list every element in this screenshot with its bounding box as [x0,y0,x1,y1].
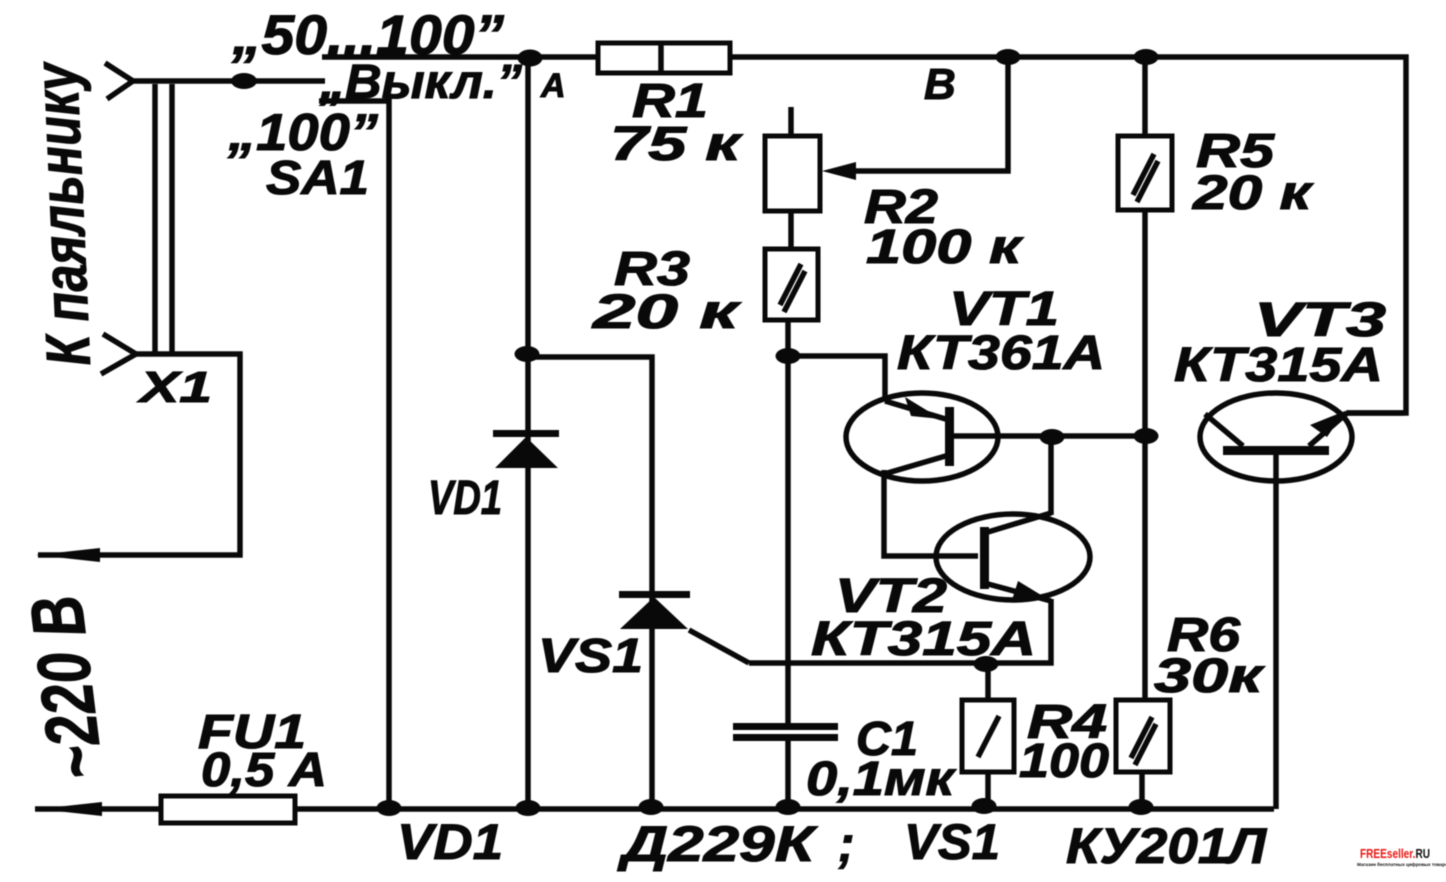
diode VD1 [493,430,559,437]
wire node B down and left to R2 wiper [840,57,1008,171]
resistor R4 [985,664,991,700]
wire VT1 base to R5/R6 line [954,433,1146,439]
X1 cable double line [152,84,158,352]
svg-text:FREEseller.RU: FREEseller.RU [1360,846,1430,861]
svg-text:VS1: VS1 [538,630,643,683]
resistor R1 [598,43,730,73]
junction dot R4 top [974,656,999,672]
svg-text:К паяльнику: К паяльнику [22,59,104,368]
wire R3 down to C1 and bottom [785,320,791,723]
svg-text:20 к: 20 к [591,286,742,339]
wire VT2 emitter down and left to VS1 gate [749,599,1051,663]
svg-text:КТ315А: КТ315А [811,613,1036,666]
svg-text:КТ315А: КТ315А [1174,339,1383,392]
wire VT2 collector up to base line [1048,437,1054,515]
junction dot top rail at R5 [1134,49,1159,65]
svg-text:30к: 30к [1154,650,1266,703]
wire SA1 pole from X1 pin1 [133,78,325,84]
potentiometer R2 [765,136,820,211]
wire VT3 emitter to right rail [1347,410,1404,416]
resistor R5 [1118,136,1172,210]
connector X1 pin 1 arrow [105,63,133,99]
wire bottom rail [35,806,1274,812]
svg-text:75 к: 75 к [610,118,744,171]
mains terminal arrow lower [38,802,102,816]
svg-text:„Выкл.”: „Выкл.” [319,56,522,109]
wire R3 junction to VT1 emitter [788,356,885,401]
transistor VT1 [846,393,998,481]
svg-text:20 к: 20 к [1192,167,1315,220]
connector X1 pin 2 arrow [101,334,136,374]
junction dot base line at R5/R6 [1134,428,1159,444]
wire R2 to R3 [788,211,794,249]
R2 wiper arrow [822,162,856,180]
capacitor C1 [733,723,838,730]
thyristor VS1 [619,591,690,598]
svg-text:КТ361А: КТ361А [897,327,1105,380]
svg-text:100 к: 100 к [866,221,1025,274]
svg-text:;: ; [838,816,855,872]
junction dots bottom rail [377,800,402,816]
wire VT3 base down to bottom rail [1273,455,1279,809]
wire SA1 contact Vykl/100 down to bottom rail [319,101,389,809]
thyristor VS1 gate wire [689,630,749,663]
wire VS1 branch [528,357,652,809]
wire top rail 50...100 contact to right edge and down to VT3 emitter [322,57,1406,413]
fuse FU1 [161,796,295,823]
svg-text:Магазин бесплатных цифровых то: Магазин бесплатных цифровых товаров [1357,861,1446,867]
junction dot VD1 line to VS1 branch [515,346,540,362]
wire R5/R6 vertical [1142,57,1148,136]
junction dot top rail at node B branch [996,49,1021,65]
svg-text:Д229К: Д229К [617,816,818,872]
node A dot [518,50,543,67]
svg-text:VD1: VD1 [397,814,503,870]
transistor VT3 [1200,393,1352,481]
potentiometer R2 top stub [788,107,794,136]
mains terminal arrow upper [36,548,100,562]
svg-text:X1: X1 [136,363,212,412]
svg-text:100: 100 [1019,735,1109,788]
resistor R3 [765,249,818,320]
svg-text:SA1: SA1 [266,152,369,205]
svg-text:0,1мк: 0,1мк [806,753,957,806]
wire R6 to bottom rail [1139,772,1145,809]
svg-text:VS1: VS1 [904,814,1000,870]
transistor VT2 [936,514,1090,600]
resistor R6 [1116,700,1170,772]
svg-text:VD1: VD1 [428,472,502,525]
svg-text:КУ201Л: КУ201Л [1066,818,1268,874]
wire VT1 collector to VT2 base [884,470,978,556]
svg-text:0,5 А: 0,5 А [201,744,327,797]
junction dot VT1 base / VT2 collector [1040,429,1065,445]
svg-text:B: B [924,60,956,109]
junction dot on pole wire [231,73,257,89]
svg-text:A: A [540,67,566,105]
wire VD1 branch vertical [525,58,531,809]
junction dot R3 bottom [776,348,801,364]
wire X1 pin2 to mains terminal [38,354,240,555]
